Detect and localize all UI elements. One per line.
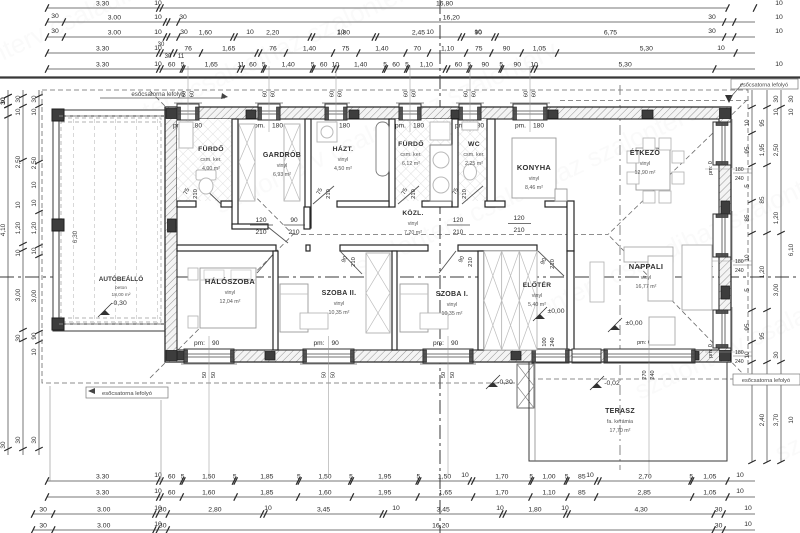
svg-text:1,20: 1,20 xyxy=(31,221,38,234)
window east middle (85) xyxy=(713,214,731,257)
svg-text:10: 10 xyxy=(717,45,725,52)
svg-text:240: 240 xyxy=(735,176,744,182)
svg-text:5: 5 xyxy=(405,62,409,69)
svg-text:vinyl: vinyl xyxy=(641,275,652,281)
svg-text:5: 5 xyxy=(311,62,315,69)
carport bottom beam xyxy=(53,324,165,331)
svg-text:1,05: 1,05 xyxy=(703,490,716,497)
exterior wall band (hatched) xyxy=(165,107,731,362)
wardrobe SZOBA I xyxy=(484,251,537,350)
svg-text:60: 60 xyxy=(168,490,176,497)
svg-text:2,50: 2,50 xyxy=(773,143,780,156)
svg-text:3.30: 3.30 xyxy=(96,1,109,8)
svg-text:30: 30 xyxy=(179,14,187,21)
svg-text:10: 10 xyxy=(154,521,162,528)
svg-text:10: 10 xyxy=(154,61,162,68)
desk SZOBA I xyxy=(420,313,448,329)
svg-text:30: 30 xyxy=(15,95,22,103)
svg-text:-0,30: -0,30 xyxy=(497,379,513,386)
level mark ±0,00 xyxy=(535,314,545,319)
svg-text:90: 90 xyxy=(482,62,490,69)
svg-text:76: 76 xyxy=(269,46,277,53)
svg-text:10: 10 xyxy=(31,199,38,207)
window WC (60) xyxy=(459,104,481,120)
svg-text:90: 90 xyxy=(31,332,38,340)
svg-text:1,40: 1,40 xyxy=(303,46,316,53)
svg-text:1,60: 1,60 xyxy=(199,30,212,37)
sofa NAPPALI east xyxy=(682,245,712,310)
svg-text:6,10: 6,10 xyxy=(788,243,795,256)
svg-text:1,95: 1,95 xyxy=(378,490,391,497)
svg-text:120: 120 xyxy=(453,217,464,224)
svg-text:85: 85 xyxy=(759,196,766,204)
svg-text:±0,00: ±0,00 xyxy=(626,320,643,327)
svg-text:240: 240 xyxy=(735,268,744,274)
WC door leaf xyxy=(462,186,483,204)
svg-text:60: 60 xyxy=(320,62,328,69)
svg-text:60: 60 xyxy=(182,91,188,97)
section line horizontal B xyxy=(0,276,800,278)
svg-text:180: 180 xyxy=(533,123,544,130)
bottom dimension row 2 xyxy=(47,496,755,498)
roof hip bottom-left xyxy=(150,235,293,379)
gutter label top-right (boxed) xyxy=(731,79,798,89)
svg-text:210: 210 xyxy=(468,257,474,267)
svg-text:210: 210 xyxy=(326,189,332,199)
svg-text:3.30: 3.30 xyxy=(96,46,109,53)
svg-text:30: 30 xyxy=(708,14,716,21)
svg-text:1,10: 1,10 xyxy=(441,46,454,53)
svg-text:1,80: 1,80 xyxy=(528,507,541,514)
terrace glass door NAPPALI (270) xyxy=(604,349,695,363)
svg-text:esőcsatorna lefolyó: esőcsatorna lefolyó xyxy=(131,91,185,98)
svg-text:10: 10 xyxy=(561,505,569,512)
armchair NAPPALI xyxy=(649,317,675,345)
svg-text:1,20: 1,20 xyxy=(759,265,766,278)
left dimension column 3 xyxy=(38,90,40,455)
svg-text:fa. kerámia: fa. kerámia xyxy=(607,419,633,425)
svg-text:5,40 m²: 5,40 m² xyxy=(528,302,546,308)
desk SZOBA II xyxy=(300,313,328,329)
wall between FÜRDŐ and GARDRÓB xyxy=(232,119,238,228)
svg-text:5: 5 xyxy=(565,474,569,481)
svg-text:-0,02: -0,02 xyxy=(604,380,620,387)
svg-text:30: 30 xyxy=(39,523,47,530)
svg-text:30: 30 xyxy=(715,523,723,530)
svg-text:vinyl: vinyl xyxy=(640,161,651,167)
top dimension row 1 xyxy=(47,7,728,9)
wall between SZOBA II and SZOBA I xyxy=(392,251,397,350)
svg-text:5: 5 xyxy=(233,474,237,481)
window SZOBA II (150) xyxy=(303,349,354,363)
svg-text:10: 10 xyxy=(744,119,751,127)
svg-text:10: 10 xyxy=(332,62,340,69)
svg-text:30: 30 xyxy=(715,507,723,514)
svg-text:240: 240 xyxy=(650,370,656,379)
right dimension column 1 (inner) xyxy=(751,90,753,462)
top dimension row 5 xyxy=(47,68,755,70)
pier xyxy=(246,110,256,119)
wardrobe SZOBA II xyxy=(366,253,390,333)
svg-text:esőcsatorna lefolyó: esőcsatorna lefolyó xyxy=(102,391,152,397)
svg-text:2,85: 2,85 xyxy=(638,490,651,497)
roof hip bottom-right xyxy=(608,235,747,379)
svg-text:18,00 m²: 18,00 m² xyxy=(112,292,131,298)
svg-text:2,80: 2,80 xyxy=(208,507,221,514)
svg-text:16,77 m²: 16,77 m² xyxy=(636,284,657,290)
pier xyxy=(721,201,730,214)
entrance door ELŐTÉR (100) xyxy=(532,349,569,363)
svg-text:3.00: 3.00 xyxy=(97,523,110,530)
corridor north wall (right of jog, doors to HÁZT, FÜRDŐ2, WC, KONYHA) xyxy=(337,201,389,207)
svg-text:30: 30 xyxy=(15,334,22,342)
svg-text:30: 30 xyxy=(773,351,780,359)
svg-text:pm: 0: pm: 0 xyxy=(708,344,714,358)
top dimension row 2 xyxy=(47,21,755,23)
svg-text:2,70: 2,70 xyxy=(638,474,651,481)
window FÜRDŐ 2 (60) xyxy=(399,104,421,120)
svg-text:210: 210 xyxy=(255,229,266,236)
svg-text:1,05: 1,05 xyxy=(703,474,716,481)
svg-text:60: 60 xyxy=(271,91,277,97)
svg-text:1,40: 1,40 xyxy=(375,46,388,53)
svg-text:esőcsatorna lefolyó: esőcsatorna lefolyó xyxy=(742,378,790,384)
wall between SZOBA I and ELŐTÉR xyxy=(478,251,484,350)
svg-text:5: 5 xyxy=(744,184,751,188)
svg-text:pm.: pm. xyxy=(395,123,406,130)
corner pier NW xyxy=(166,109,177,119)
svg-text:210: 210 xyxy=(453,229,464,236)
svg-text:3.30: 3.30 xyxy=(96,474,109,481)
bottom dimension row 4 xyxy=(33,529,755,531)
svg-text:10: 10 xyxy=(15,249,22,257)
svg-text:8,46 m²: 8,46 m² xyxy=(525,185,543,191)
svg-text:2,40: 2,40 xyxy=(759,413,766,426)
svg-text:16,80: 16,80 xyxy=(436,1,453,8)
svg-text:4,50 m²: 4,50 m² xyxy=(334,166,352,172)
window FÜRDŐ (60) xyxy=(177,104,199,120)
GARDRÓB south wall with door xyxy=(232,224,268,229)
svg-text:pm:: pm: xyxy=(314,340,325,347)
svg-text:10: 10 xyxy=(530,62,538,69)
svg-text:120: 120 xyxy=(255,217,266,224)
svg-text:90: 90 xyxy=(451,340,459,347)
svg-text:-0,30: -0,30 xyxy=(111,300,127,307)
roof ridge dashed xyxy=(293,234,608,236)
svg-text:1,60: 1,60 xyxy=(318,490,331,497)
bed SZOBA II xyxy=(280,284,308,332)
svg-text:30: 30 xyxy=(180,29,188,36)
svg-text:10: 10 xyxy=(461,472,469,479)
svg-text:1,70: 1,70 xyxy=(495,474,508,481)
svg-text:10: 10 xyxy=(474,29,482,36)
toilet WC xyxy=(462,122,478,130)
svg-text:vinyl: vinyl xyxy=(225,290,236,296)
svg-text:2,50: 2,50 xyxy=(15,155,22,168)
wall between HÁLÓSZOBA and SZOBA II xyxy=(273,251,278,350)
corridor north wall (left segment, with FÜRDŐ door) xyxy=(177,201,196,207)
svg-text:60: 60 xyxy=(249,62,257,69)
pier xyxy=(168,219,177,232)
svg-text:70: 70 xyxy=(413,46,421,53)
svg-text:10: 10 xyxy=(264,505,272,512)
svg-text:210: 210 xyxy=(513,227,524,234)
carport dashed battens xyxy=(61,121,161,123)
wall between WC and KONYHA xyxy=(487,119,495,207)
guide line building west wall xyxy=(160,400,162,481)
svg-text:KÖZL.: KÖZL. xyxy=(402,208,423,217)
svg-text:10: 10 xyxy=(31,247,38,255)
bed HÁLÓSZOBA xyxy=(200,268,256,328)
svg-text:95: 95 xyxy=(744,146,751,154)
svg-text:3,00: 3,00 xyxy=(773,283,780,296)
FÜRDŐ door leaf xyxy=(200,184,221,204)
svg-text:vinyl: vinyl xyxy=(408,221,419,227)
svg-text:180: 180 xyxy=(413,123,424,130)
svg-text:240: 240 xyxy=(550,337,556,346)
svg-text:10: 10 xyxy=(775,14,783,21)
svg-text:5: 5 xyxy=(529,474,533,481)
svg-text:ELŐTÉR: ELŐTÉR xyxy=(523,280,552,289)
svg-text:6,75: 6,75 xyxy=(604,30,617,37)
section line vertical C xyxy=(619,85,621,470)
roof hip top-right xyxy=(608,100,747,235)
entrance steps xyxy=(517,364,534,408)
svg-text:210: 210 xyxy=(462,189,468,199)
svg-text:60: 60 xyxy=(532,91,538,97)
svg-text:1,85: 1,85 xyxy=(260,474,273,481)
svg-text:1,65: 1,65 xyxy=(205,62,218,69)
svg-text:TERASZ: TERASZ xyxy=(605,408,635,415)
svg-text:csm. ker.: csm. ker. xyxy=(200,157,221,163)
svg-text:AUTÓBEÁLLÓ: AUTÓBEÁLLÓ xyxy=(99,274,143,283)
svg-text:90: 90 xyxy=(514,62,522,69)
svg-text:50: 50 xyxy=(450,372,456,378)
svg-text:10: 10 xyxy=(31,348,38,356)
dashed connector lines carport roof xyxy=(59,115,165,117)
toilet FÜRDŐ 1 xyxy=(196,170,216,180)
svg-text:95: 95 xyxy=(744,323,751,331)
carport post mid-left xyxy=(52,219,64,231)
svg-text:NAPPALI: NAPPALI xyxy=(629,262,663,271)
svg-text:1,20: 1,20 xyxy=(773,211,780,224)
window ÉTKEZŐ east (95) xyxy=(713,122,731,165)
gutter label bottom-left xyxy=(86,387,168,398)
svg-text:6,30: 6,30 xyxy=(72,230,79,243)
svg-text:50: 50 xyxy=(322,372,328,378)
svg-text:2,45: 2,45 xyxy=(412,30,425,37)
svg-text:1,50: 1,50 xyxy=(318,474,331,481)
svg-text:60: 60 xyxy=(330,91,336,97)
svg-text:3.00: 3.00 xyxy=(108,15,121,22)
svg-text:3,45: 3,45 xyxy=(437,507,450,514)
svg-text:17,70 m²: 17,70 m² xyxy=(610,428,631,434)
svg-text:1,00: 1,00 xyxy=(542,474,555,481)
svg-text:4,10: 4,10 xyxy=(0,223,7,236)
svg-text:beton: beton xyxy=(115,285,127,291)
svg-text:60: 60 xyxy=(404,91,410,97)
svg-text:5: 5 xyxy=(499,62,503,69)
svg-text:10: 10 xyxy=(736,472,744,479)
svg-text:1,05: 1,05 xyxy=(533,46,546,53)
svg-text:3.00: 3.00 xyxy=(97,507,110,514)
pier xyxy=(455,352,465,361)
corner pier SW xyxy=(166,351,177,361)
svg-text:10: 10 xyxy=(586,472,594,479)
svg-text:85: 85 xyxy=(744,214,751,222)
svg-text:10: 10 xyxy=(775,61,783,68)
svg-text:10: 10 xyxy=(736,488,744,495)
svg-text:30: 30 xyxy=(165,54,172,60)
svg-text:3,45: 3,45 xyxy=(317,507,330,514)
window KONYHA (90) xyxy=(513,104,547,120)
svg-text:5,30: 5,30 xyxy=(640,46,653,53)
bathtub FÜRDŐ 2 xyxy=(430,145,452,201)
svg-text:3,00: 3,00 xyxy=(31,289,38,302)
SZOBA I door leaf xyxy=(439,251,456,273)
svg-text:3.30: 3.30 xyxy=(96,62,109,69)
svg-text:30: 30 xyxy=(708,28,716,35)
svg-text:60: 60 xyxy=(168,474,176,481)
svg-text:1,10: 1,10 xyxy=(420,62,433,69)
svg-text:5: 5 xyxy=(744,288,751,292)
carport post bottom-left xyxy=(52,318,64,330)
svg-text:10: 10 xyxy=(775,0,783,7)
svg-text:5,30: 5,30 xyxy=(619,62,632,69)
KONYHA/ELŐTÉR - NAPPALI west wall xyxy=(567,201,574,251)
bottom dimension row 3 xyxy=(33,513,755,515)
carport post top-left xyxy=(52,109,64,121)
svg-text:6,12 m²: 6,12 m² xyxy=(402,161,420,167)
svg-text:50: 50 xyxy=(331,372,337,378)
wc tiled floor xyxy=(458,119,487,201)
svg-text:10: 10 xyxy=(775,28,783,35)
svg-text:10: 10 xyxy=(788,108,795,116)
svg-text:4,30: 4,30 xyxy=(634,507,647,514)
carport left beam xyxy=(53,110,59,331)
svg-text:210: 210 xyxy=(550,259,556,269)
svg-text:210: 210 xyxy=(288,229,299,236)
svg-text:5: 5 xyxy=(689,474,693,481)
svg-text:60: 60 xyxy=(263,91,269,97)
svg-text:pm.: pm. xyxy=(254,123,265,130)
svg-text:10: 10 xyxy=(788,416,795,424)
right dimension column 3 (outer) xyxy=(780,90,782,462)
window HÁZT. (60) xyxy=(325,104,347,120)
bed SZOBA I xyxy=(400,284,428,332)
svg-text:vinyl: vinyl xyxy=(334,301,345,307)
laundry tub HÁZT xyxy=(376,122,389,176)
tv cabinet NAPPALI xyxy=(590,262,604,302)
svg-text:pm:: pm: xyxy=(433,340,444,347)
corner pier SE xyxy=(720,351,731,361)
svg-text:30: 30 xyxy=(15,436,22,444)
svg-text:5: 5 xyxy=(181,474,185,481)
svg-text:3.30: 3.30 xyxy=(96,490,109,497)
svg-text:FÜRDŐ: FÜRDŐ xyxy=(398,139,424,148)
svg-text:5: 5 xyxy=(181,62,185,69)
carport roof rafters dashed xyxy=(59,116,165,324)
svg-text:180: 180 xyxy=(339,123,350,130)
guide line carport corner xyxy=(49,386,51,481)
svg-text:10,35 m²: 10,35 m² xyxy=(329,310,350,316)
svg-text:1,95: 1,95 xyxy=(378,474,391,481)
svg-text:WC: WC xyxy=(468,141,480,148)
carport dashed inner edge xyxy=(61,118,161,322)
svg-text:180: 180 xyxy=(735,167,744,173)
eaves dashed outline xyxy=(42,90,748,383)
svg-text:60: 60 xyxy=(464,91,470,97)
pier xyxy=(642,110,653,119)
HÁLÓSZOBA door leaf xyxy=(257,251,276,273)
svg-text:esőcsatorna lefolyó: esőcsatorna lefolyó xyxy=(740,83,788,89)
svg-text:10: 10 xyxy=(426,29,434,36)
corner pier NE xyxy=(720,109,731,119)
gutter label bottom-right (boxed) xyxy=(733,374,800,385)
wall between HÁZT. and FÜRDŐ 2 xyxy=(389,119,395,207)
svg-text:1,95: 1,95 xyxy=(759,143,766,156)
svg-text:pm: 0: pm: 0 xyxy=(708,161,714,175)
svg-text:10: 10 xyxy=(246,29,254,36)
svg-text:HÁZT.: HÁZT. xyxy=(333,144,354,153)
svg-text:16,20: 16,20 xyxy=(443,15,460,22)
svg-text:3.00: 3.00 xyxy=(108,30,121,37)
svg-text:pm.: pm. xyxy=(515,123,526,130)
level mark -0,30 xyxy=(488,382,498,387)
bathroom 2 tiled floor xyxy=(395,119,452,201)
window next to entrance (85) xyxy=(572,349,601,363)
sofa NAPPALI top xyxy=(624,247,673,262)
svg-text:3,70: 3,70 xyxy=(773,413,780,426)
svg-text:5: 5 xyxy=(349,474,353,481)
svg-text:2,25 m²: 2,25 m² xyxy=(465,161,483,167)
svg-text:pm:: pm: xyxy=(194,340,205,347)
svg-text:90: 90 xyxy=(290,217,298,224)
svg-text:60: 60 xyxy=(472,91,478,97)
carport top beam xyxy=(53,110,165,116)
dining table ÉTKEZŐ xyxy=(636,148,670,190)
svg-text:10: 10 xyxy=(496,505,504,512)
svg-text:30: 30 xyxy=(31,95,38,103)
pier xyxy=(451,110,461,119)
GARDRÓB door leaf xyxy=(268,227,288,243)
svg-text:75: 75 xyxy=(475,46,483,53)
svg-text:12,04 m²: 12,04 m² xyxy=(220,299,241,305)
svg-text:csm. ker.: csm. ker. xyxy=(400,152,421,158)
svg-text:60: 60 xyxy=(412,91,418,97)
top dimension row 4 xyxy=(47,52,755,54)
svg-text:30: 30 xyxy=(788,95,795,103)
svg-text:180: 180 xyxy=(735,259,744,265)
sofa NAPPALI center xyxy=(648,256,673,301)
svg-text:210: 210 xyxy=(193,189,199,199)
sheet separator line xyxy=(0,76,800,78)
svg-text:60: 60 xyxy=(190,91,196,97)
svg-text:1,65: 1,65 xyxy=(439,490,452,497)
svg-text:240: 240 xyxy=(735,359,744,365)
svg-text:30: 30 xyxy=(51,13,59,20)
svg-text:90: 90 xyxy=(212,340,220,347)
terrace outline xyxy=(529,362,727,461)
right dimension column 2 xyxy=(766,90,768,462)
svg-text:90: 90 xyxy=(332,340,340,347)
svg-text:1,60: 1,60 xyxy=(202,490,215,497)
svg-text:GARDRÓB: GARDRÓB xyxy=(263,150,301,159)
svg-text:10,35 m²: 10,35 m² xyxy=(442,311,463,317)
window GARDRÓB (60) xyxy=(258,104,280,120)
svg-text:60: 60 xyxy=(338,91,344,97)
svg-text:1,85: 1,85 xyxy=(260,490,273,497)
